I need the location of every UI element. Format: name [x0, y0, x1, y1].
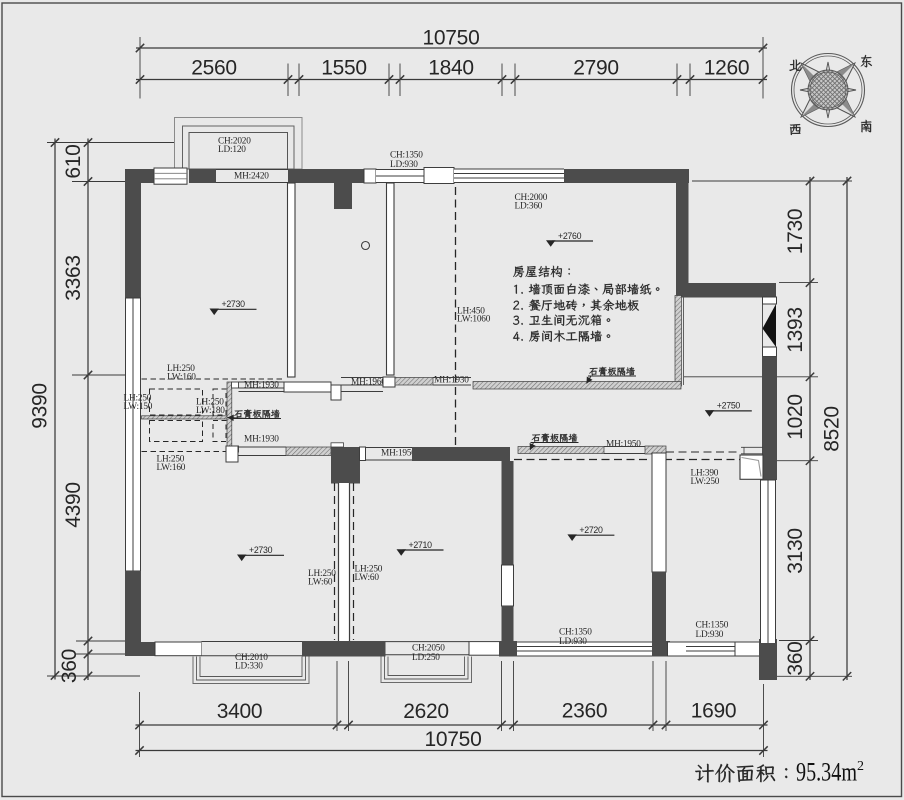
svg-text:2560: 2560 [191, 57, 237, 80]
svg-text:+2720: +2720 [579, 525, 603, 535]
svg-text:610: 610 [62, 144, 85, 178]
svg-text:MH:1930: MH:1930 [244, 435, 279, 445]
svg-text:LW:160: LW:160 [157, 463, 186, 473]
svg-text:1393: 1393 [784, 307, 807, 353]
svg-text:LW:250: LW:250 [691, 477, 720, 487]
svg-text:LD:330: LD:330 [235, 662, 263, 672]
svg-text:+2760: +2760 [558, 231, 582, 241]
svg-text:+2750: +2750 [717, 401, 741, 411]
svg-text:1690: 1690 [691, 700, 737, 723]
svg-text:MH:2420: MH:2420 [234, 172, 269, 182]
svg-text:MH:1950: MH:1950 [606, 440, 641, 450]
svg-text:10750: 10750 [423, 27, 480, 50]
svg-text:8520: 8520 [821, 406, 844, 452]
svg-text:3130: 3130 [784, 528, 807, 574]
svg-text:1020: 1020 [784, 394, 807, 440]
svg-text:LD:360: LD:360 [515, 202, 543, 212]
svg-text:LW:150: LW:150 [124, 402, 153, 412]
svg-text:10750: 10750 [425, 728, 482, 751]
svg-text:4390: 4390 [62, 482, 85, 528]
svg-text:9390: 9390 [29, 383, 52, 429]
svg-text:LW:160: LW:160 [167, 373, 196, 383]
svg-text:CH:1350: CH:1350 [696, 621, 729, 631]
svg-text:LD:930: LD:930 [696, 630, 724, 640]
svg-text:2360: 2360 [562, 700, 608, 723]
svg-text:MH:1950: MH:1950 [381, 449, 416, 459]
svg-text:1550: 1550 [321, 57, 367, 80]
svg-text:360: 360 [784, 641, 807, 675]
svg-text:LW:180: LW:180 [196, 406, 225, 416]
svg-text:1840: 1840 [428, 57, 474, 80]
svg-text:1730: 1730 [784, 209, 807, 255]
svg-text:LW:60: LW:60 [308, 578, 333, 588]
svg-text:CH:1350: CH:1350 [559, 628, 592, 638]
svg-text:95.34m: 95.34m [796, 757, 857, 787]
svg-text:LW:60: LW:60 [355, 573, 380, 583]
svg-text:+2730: +2730 [249, 545, 273, 555]
svg-text:CH:1350: CH:1350 [390, 151, 423, 161]
svg-text:360: 360 [58, 649, 81, 683]
svg-text:MH:1930: MH:1930 [244, 381, 279, 391]
svg-text:CH:2050: CH:2050 [412, 644, 445, 654]
svg-text:2620: 2620 [403, 700, 449, 723]
svg-text:LD:930: LD:930 [559, 637, 587, 647]
svg-text:LW:1060: LW:1060 [457, 315, 491, 325]
svg-text:LD:120: LD:120 [218, 145, 246, 155]
svg-text:LD:930: LD:930 [390, 160, 418, 170]
svg-text:+2730: +2730 [222, 299, 246, 309]
svg-text:3400: 3400 [217, 700, 263, 723]
svg-text:1260: 1260 [704, 57, 750, 80]
svg-text:+2710: +2710 [409, 540, 433, 550]
svg-text:2: 2 [857, 759, 864, 774]
svg-text:3363: 3363 [62, 255, 85, 301]
svg-text:2790: 2790 [573, 57, 619, 80]
svg-text:MH:1960: MH:1960 [351, 378, 386, 388]
svg-text:LD:250: LD:250 [412, 653, 440, 663]
svg-text:MH:1930: MH:1930 [434, 376, 469, 386]
